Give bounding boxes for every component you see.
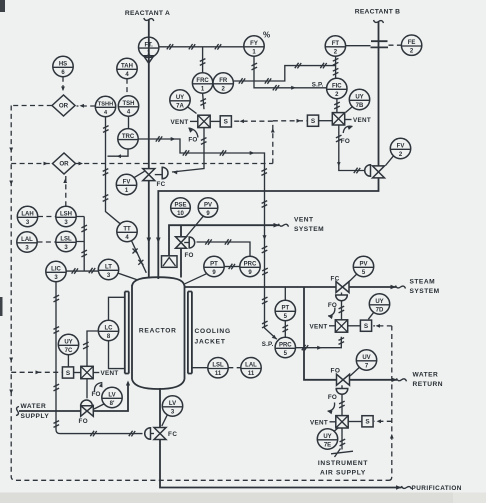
svg-text:LV: LV xyxy=(169,401,176,407)
instrument LV-8 xyxy=(102,387,122,407)
svg-text:FO: FO xyxy=(328,394,337,401)
arrow water into jacket xyxy=(126,381,130,386)
pipe reactor outlet to purification xyxy=(160,388,402,488)
solenoid box S steam xyxy=(360,320,371,331)
control valve steam PV5 body xyxy=(336,282,349,293)
pipe water return xyxy=(304,287,397,380)
vent hook steam chain xyxy=(328,308,335,317)
signal jacket to LSL11 xyxy=(192,367,208,369)
pipe reactant A feed xyxy=(148,20,150,279)
svg-text:S: S xyxy=(365,419,370,426)
pipe water supply xyxy=(19,384,128,411)
instrument UV-7 xyxy=(356,350,376,370)
svg-text:FIC: FIC xyxy=(332,84,342,90)
tag line PV9 to valve xyxy=(186,216,204,237)
solenoid vent valve reactant A xyxy=(198,115,210,127)
instrument FV-2 xyxy=(390,138,410,158)
logic OR2 xyxy=(53,153,76,174)
svg-text:RETURN: RETURN xyxy=(413,381,443,388)
instrument FE-2 xyxy=(401,35,421,55)
signal TRC output to PRC5 setpoint xyxy=(138,139,277,339)
svg-text:OR: OR xyxy=(59,103,69,110)
svg-text:FY: FY xyxy=(250,41,258,47)
svg-text:LAL: LAL xyxy=(245,363,257,369)
signal rail to S steam xyxy=(373,325,392,327)
svg-text:FRC: FRC xyxy=(196,78,209,84)
instrument TAH-4 xyxy=(117,58,137,78)
svg-text:FO: FO xyxy=(188,137,197,144)
instrument FV-1 xyxy=(116,174,136,194)
svg-text:SUPPLY: SUPPLY xyxy=(21,413,50,420)
signal LC8 lower tap xyxy=(109,341,125,369)
signal HS6 to OR1 xyxy=(62,77,64,94)
vent hook reactant B xyxy=(343,126,352,133)
reactor vessel shell xyxy=(132,277,185,389)
instrument UY-7C xyxy=(58,334,78,354)
cooling jacket right wall xyxy=(188,292,192,374)
signal rail to S water supply xyxy=(11,371,62,373)
signal LIC3 to LV3 valve xyxy=(56,282,143,434)
instrument TSHH-4 xyxy=(95,96,115,116)
signal PRC9 to PV9 actuator xyxy=(197,242,251,256)
solenoid box S water supply xyxy=(62,367,73,378)
instrument TRC xyxy=(118,129,138,149)
control valve water return UV7 body xyxy=(337,374,350,385)
capillary TT4 to reactor xyxy=(132,241,147,273)
instrument PT-9 xyxy=(204,256,224,276)
signal FIC2 to vent valve xyxy=(336,99,338,112)
signal PT9 to PRC9 xyxy=(224,266,239,268)
flow arrow reactant A xyxy=(147,238,152,244)
actuator FV1 xyxy=(162,167,168,179)
tag line UV7 xyxy=(350,367,360,376)
svg-text:S: S xyxy=(224,119,229,126)
signal UY7B to xvalve xyxy=(346,106,353,112)
flow arrow reactant B xyxy=(156,238,161,244)
instrument TT-4 xyxy=(117,221,137,241)
svg-text:REACTANT A: REACTANT A xyxy=(125,10,170,17)
control valve LV8 body xyxy=(81,406,94,417)
svg-text:FT.: FT. xyxy=(145,42,154,48)
tag line UY7E xyxy=(334,428,339,432)
source squiggle reactant A xyxy=(144,18,154,21)
svg-text:FO: FO xyxy=(185,252,194,259)
instrument FR-2 xyxy=(213,73,233,93)
svg-text:UY: UY xyxy=(64,340,72,346)
signal LT3 to reactor xyxy=(118,273,137,280)
solenoid box S water return xyxy=(362,416,373,427)
instrument LT-3 xyxy=(98,259,118,279)
stem steam valve xyxy=(341,293,343,296)
svg-text:7A: 7A xyxy=(176,103,184,109)
instrument PV-9 xyxy=(198,198,218,218)
actuator LV8 xyxy=(81,400,93,406)
svg-text:PRC: PRC xyxy=(279,343,292,349)
svg-text:11: 11 xyxy=(248,371,255,377)
control valve PV9 body xyxy=(176,237,187,249)
control valve FV2 body xyxy=(373,166,385,178)
instrument FT-2 xyxy=(325,36,345,56)
pipe reactant B feed xyxy=(158,22,378,280)
signal OR1 output to left rail xyxy=(11,105,52,107)
instrument UY-7A xyxy=(170,90,190,110)
signal LSH to OR2 xyxy=(65,175,67,206)
svg-text:OR: OR xyxy=(59,161,69,168)
svg-text:UV: UV xyxy=(362,355,370,361)
svg-text:FC: FC xyxy=(157,181,166,188)
instrument UY-7D xyxy=(369,294,389,314)
svg-text:10: 10 xyxy=(177,211,184,217)
solenoid box S reactant A xyxy=(220,116,231,127)
svg-text:PRC: PRC xyxy=(244,262,257,268)
signal LC8 to vent xvalve xyxy=(87,331,98,366)
svg-text:FT: FT xyxy=(332,41,340,47)
instrument TSH-4 xyxy=(118,96,138,116)
svg-text:INSTRUMENT: INSTRUMENT xyxy=(318,460,368,467)
svg-text:S: S xyxy=(311,118,316,125)
svg-text:TSH: TSH xyxy=(123,101,135,107)
signal drop to FRC1 xyxy=(202,47,204,73)
svg-text:JACKET: JACKET xyxy=(195,339,226,346)
svg-text:WATER: WATER xyxy=(413,371,439,378)
instrument LIC-3 xyxy=(46,261,66,281)
solenoid vent valve water return xyxy=(336,416,348,428)
instrument LC-8 xyxy=(98,320,118,340)
svg-text:LSL: LSL xyxy=(60,237,72,243)
tag line PV5 xyxy=(349,274,357,282)
instrument PSE-10 xyxy=(171,198,191,218)
electric rail left side xyxy=(11,106,389,481)
svg-text:LT: LT xyxy=(105,265,112,271)
wire xvalve to S water return xyxy=(348,421,362,423)
svg-text:LAL: LAL xyxy=(21,237,33,243)
signal vent valve down to FV1 actuator xyxy=(172,128,204,172)
instrument LAL-3 xyxy=(17,232,37,252)
svg-text:VENT: VENT xyxy=(310,419,328,426)
instrument UY-7B xyxy=(349,89,369,109)
wire FT2 to orifice xyxy=(346,45,371,47)
wire orifice to FE2 xyxy=(389,44,402,46)
svg-text:PV: PV xyxy=(204,203,212,209)
vent hook water supply xyxy=(94,383,102,393)
arrow vent system xyxy=(274,223,280,228)
actuator steam valve xyxy=(336,295,348,301)
svg-text:FV: FV xyxy=(123,180,131,186)
pipe vent header xyxy=(169,225,279,256)
wire xvalve to S box A xyxy=(210,120,220,122)
instrument LSL-3 xyxy=(56,231,76,251)
svg-text:PSE: PSE xyxy=(174,203,186,209)
signal UY7C to S box xyxy=(67,355,69,367)
instrument FIC-2 xyxy=(327,78,347,98)
svg-text:PT: PT xyxy=(210,262,218,268)
signal PT9 to reactor xyxy=(185,274,207,284)
svg-text:FE: FE xyxy=(408,40,416,46)
svg-text:LAH: LAH xyxy=(21,212,33,218)
svg-text:HS: HS xyxy=(59,62,67,68)
label VENT reactant B xyxy=(345,119,352,121)
svg-text:SYSTEM: SYSTEM xyxy=(294,226,324,233)
logic OR1 xyxy=(52,95,75,116)
svg-text:FO: FO xyxy=(331,368,341,375)
svg-text:S.P.: S.P. xyxy=(262,341,274,348)
svg-text:VENT: VENT xyxy=(171,119,189,126)
instrument LAL-11 xyxy=(241,358,261,378)
instrument FY-1 xyxy=(244,36,264,56)
signal PT5 to PRC5 xyxy=(284,321,286,337)
instrument HS-6 xyxy=(53,56,73,76)
arrow steam system xyxy=(391,285,397,290)
svg-text:FV: FV xyxy=(397,144,405,150)
control valve FV1 body xyxy=(143,169,155,181)
svg-text:REACTANT B: REACTANT B xyxy=(355,8,400,15)
svg-text:PV: PV xyxy=(359,262,367,268)
control valve LV3 body xyxy=(154,428,166,440)
instrument LAH-3 xyxy=(17,206,37,226)
svg-text:S: S xyxy=(364,323,369,330)
svg-text:FC: FC xyxy=(168,431,177,438)
signal TSHH to OR1 xyxy=(77,105,96,107)
tag line FV1 xyxy=(134,171,144,177)
wire S to xvalve water supply xyxy=(74,372,81,374)
solenoid vent valve steam xyxy=(335,320,347,332)
arrow purification xyxy=(396,485,402,490)
solenoid vent valve water supply xyxy=(81,366,93,378)
instrument air supply symbol xyxy=(331,449,353,458)
svg-text:FO: FO xyxy=(79,418,89,425)
svg-text:7C: 7C xyxy=(65,348,73,354)
svg-text:VENT: VENT xyxy=(353,117,371,124)
instrument LSL-11 xyxy=(208,358,228,378)
svg-text:FO: FO xyxy=(341,138,350,145)
wire xvalve to S steam xyxy=(348,325,361,327)
solenoid vent valve reactant B xyxy=(332,113,344,125)
svg-text:7B: 7B xyxy=(356,103,364,109)
instrument FT-1 xyxy=(139,37,159,57)
signal FT1 to FY1 xyxy=(159,46,244,48)
instrument PRC-5 xyxy=(275,337,295,357)
actuator water return valve xyxy=(336,389,348,395)
signal LT3 to LIC3 xyxy=(67,270,99,272)
signal TT riser to TSHH xyxy=(106,117,121,225)
cooling jacket left wall xyxy=(125,292,129,374)
vent hook reactant A xyxy=(189,128,199,138)
scan artifact left edge mark xyxy=(0,297,3,316)
signal steam line to PT5 xyxy=(284,287,286,300)
source squiggle reactant B xyxy=(374,20,384,23)
svg-text:PURIFICATION: PURIFICATION xyxy=(412,485,462,492)
svg-text:7D: 7D xyxy=(376,307,384,313)
signal steam actuator to vent xvalve xyxy=(341,301,343,320)
signal branch FT2 to FR2 xyxy=(234,66,336,81)
scan artifact bottom band xyxy=(0,493,486,503)
svg-text:FO: FO xyxy=(92,391,101,398)
tag line LV8 xyxy=(94,404,105,409)
instrument PT-5 xyxy=(275,300,295,320)
solenoid box S reactant B xyxy=(307,115,318,126)
svg-text:TSHH: TSHH xyxy=(98,102,113,108)
stem FV1 xyxy=(155,174,162,176)
svg-text:S: S xyxy=(66,370,71,377)
svg-text:VENT: VENT xyxy=(294,217,314,224)
svg-text:STEAM: STEAM xyxy=(410,279,436,286)
svg-text:VENT: VENT xyxy=(101,370,119,377)
svg-text:TAH: TAH xyxy=(121,64,133,70)
rupture disc PSE10 xyxy=(162,256,178,267)
svg-text:FO: FO xyxy=(328,302,337,309)
instrument LSH-3 xyxy=(56,206,76,226)
signal rail to S water-return xyxy=(375,420,392,422)
instrument UY-7E xyxy=(317,429,337,449)
signal LAH-LSH xyxy=(38,216,56,218)
signal FRC1 to vent valve UY7A xyxy=(203,93,204,109)
tag line FV2 xyxy=(386,156,394,166)
electric rail right riser xyxy=(389,326,392,480)
instrument air supply line xyxy=(341,428,343,450)
svg-text:LIC: LIC xyxy=(51,267,61,273)
stem PV9 xyxy=(184,242,189,244)
signal xvalve down to LV8 actuator xyxy=(86,379,88,399)
arrow water return xyxy=(392,378,398,383)
stem water return valve xyxy=(341,385,343,388)
svg-text:FR: FR xyxy=(219,78,228,84)
scan artifact left top corner xyxy=(0,0,5,12)
signal OR2 rail horizontal xyxy=(11,163,52,165)
signal vent valve B down to FV2 actuator xyxy=(339,125,365,171)
signal TRC tap elbow xyxy=(108,149,129,156)
instrument PRC-9 xyxy=(240,256,260,276)
svg-text:8': 8' xyxy=(110,401,115,407)
actuator FV2 xyxy=(365,165,371,177)
signal header to S reactant A xyxy=(232,120,273,122)
pipe vent branch through PV9 valve xyxy=(180,225,182,277)
instrument LV-3 xyxy=(162,396,182,416)
svg-text:UY: UY xyxy=(323,434,331,440)
orifice plate FE2 xyxy=(371,41,389,47)
signal header to S reactant B xyxy=(273,120,308,122)
svg-text:UY: UY xyxy=(176,95,184,101)
FT1 flow element cone xyxy=(144,56,154,64)
svg-text:TRC: TRC xyxy=(122,134,135,140)
svg-text:11: 11 xyxy=(215,371,222,377)
actuator LV3 xyxy=(145,428,151,440)
svg-text:SYSTEM: SYSTEM xyxy=(410,288,440,295)
signal FT2 down to FIC2 xyxy=(335,57,337,79)
signal LAL-LSL xyxy=(38,241,56,243)
svg-text:UY: UY xyxy=(355,95,363,101)
svg-text:FC: FC xyxy=(331,276,340,283)
signal TSH to TRC xyxy=(128,116,130,128)
svg-text:WATER: WATER xyxy=(21,403,47,410)
instrument FRC-1 xyxy=(192,73,212,93)
instrument PV-5 xyxy=(353,256,373,276)
signal UY7A to xvalve xyxy=(188,107,197,114)
label VENT water supply chain xyxy=(93,372,99,374)
vent hook water return chain xyxy=(328,403,335,412)
svg-text:TT: TT xyxy=(123,227,131,233)
svg-text:UY: UY xyxy=(375,299,383,305)
svg-text:%: % xyxy=(263,31,270,40)
svg-text:LSL: LSL xyxy=(212,363,224,369)
svg-text:VENT: VENT xyxy=(310,323,328,330)
svg-text:PT: PT xyxy=(281,306,289,312)
signal FY1 to FIC2 setpoint xyxy=(254,57,326,88)
signal level switch riser xyxy=(76,217,84,271)
actuator PV9 xyxy=(189,237,195,248)
svg-text:S.P.: S.P. xyxy=(312,81,324,88)
tag line UY7D xyxy=(368,312,374,319)
svg-text:LV: LV xyxy=(108,393,115,399)
signal LC8 upper tap xyxy=(109,297,125,320)
svg-text:COOLING: COOLING xyxy=(195,328,231,335)
pipe steam from jacket xyxy=(185,286,397,288)
wire S box B to xvalve xyxy=(319,120,333,122)
tag line LV3 xyxy=(162,415,168,426)
signal OR2 to solenoid header xyxy=(76,121,273,163)
signal water return actuator to vent xvalve xyxy=(341,394,343,415)
svg-text:LSH: LSH xyxy=(60,212,72,218)
signal TAH to TSH xyxy=(126,79,128,96)
svg-text:REACTOR: REACTOR xyxy=(139,327,177,334)
svg-text:LC: LC xyxy=(105,326,114,332)
signal PRC5 split range output xyxy=(296,337,342,348)
svg-text:AIR SUPPLY: AIR SUPPLY xyxy=(320,469,366,476)
svg-text:7E: 7E xyxy=(324,442,331,448)
stem LV3 xyxy=(151,433,155,435)
signal LSL11 to LAL11 xyxy=(228,367,240,369)
